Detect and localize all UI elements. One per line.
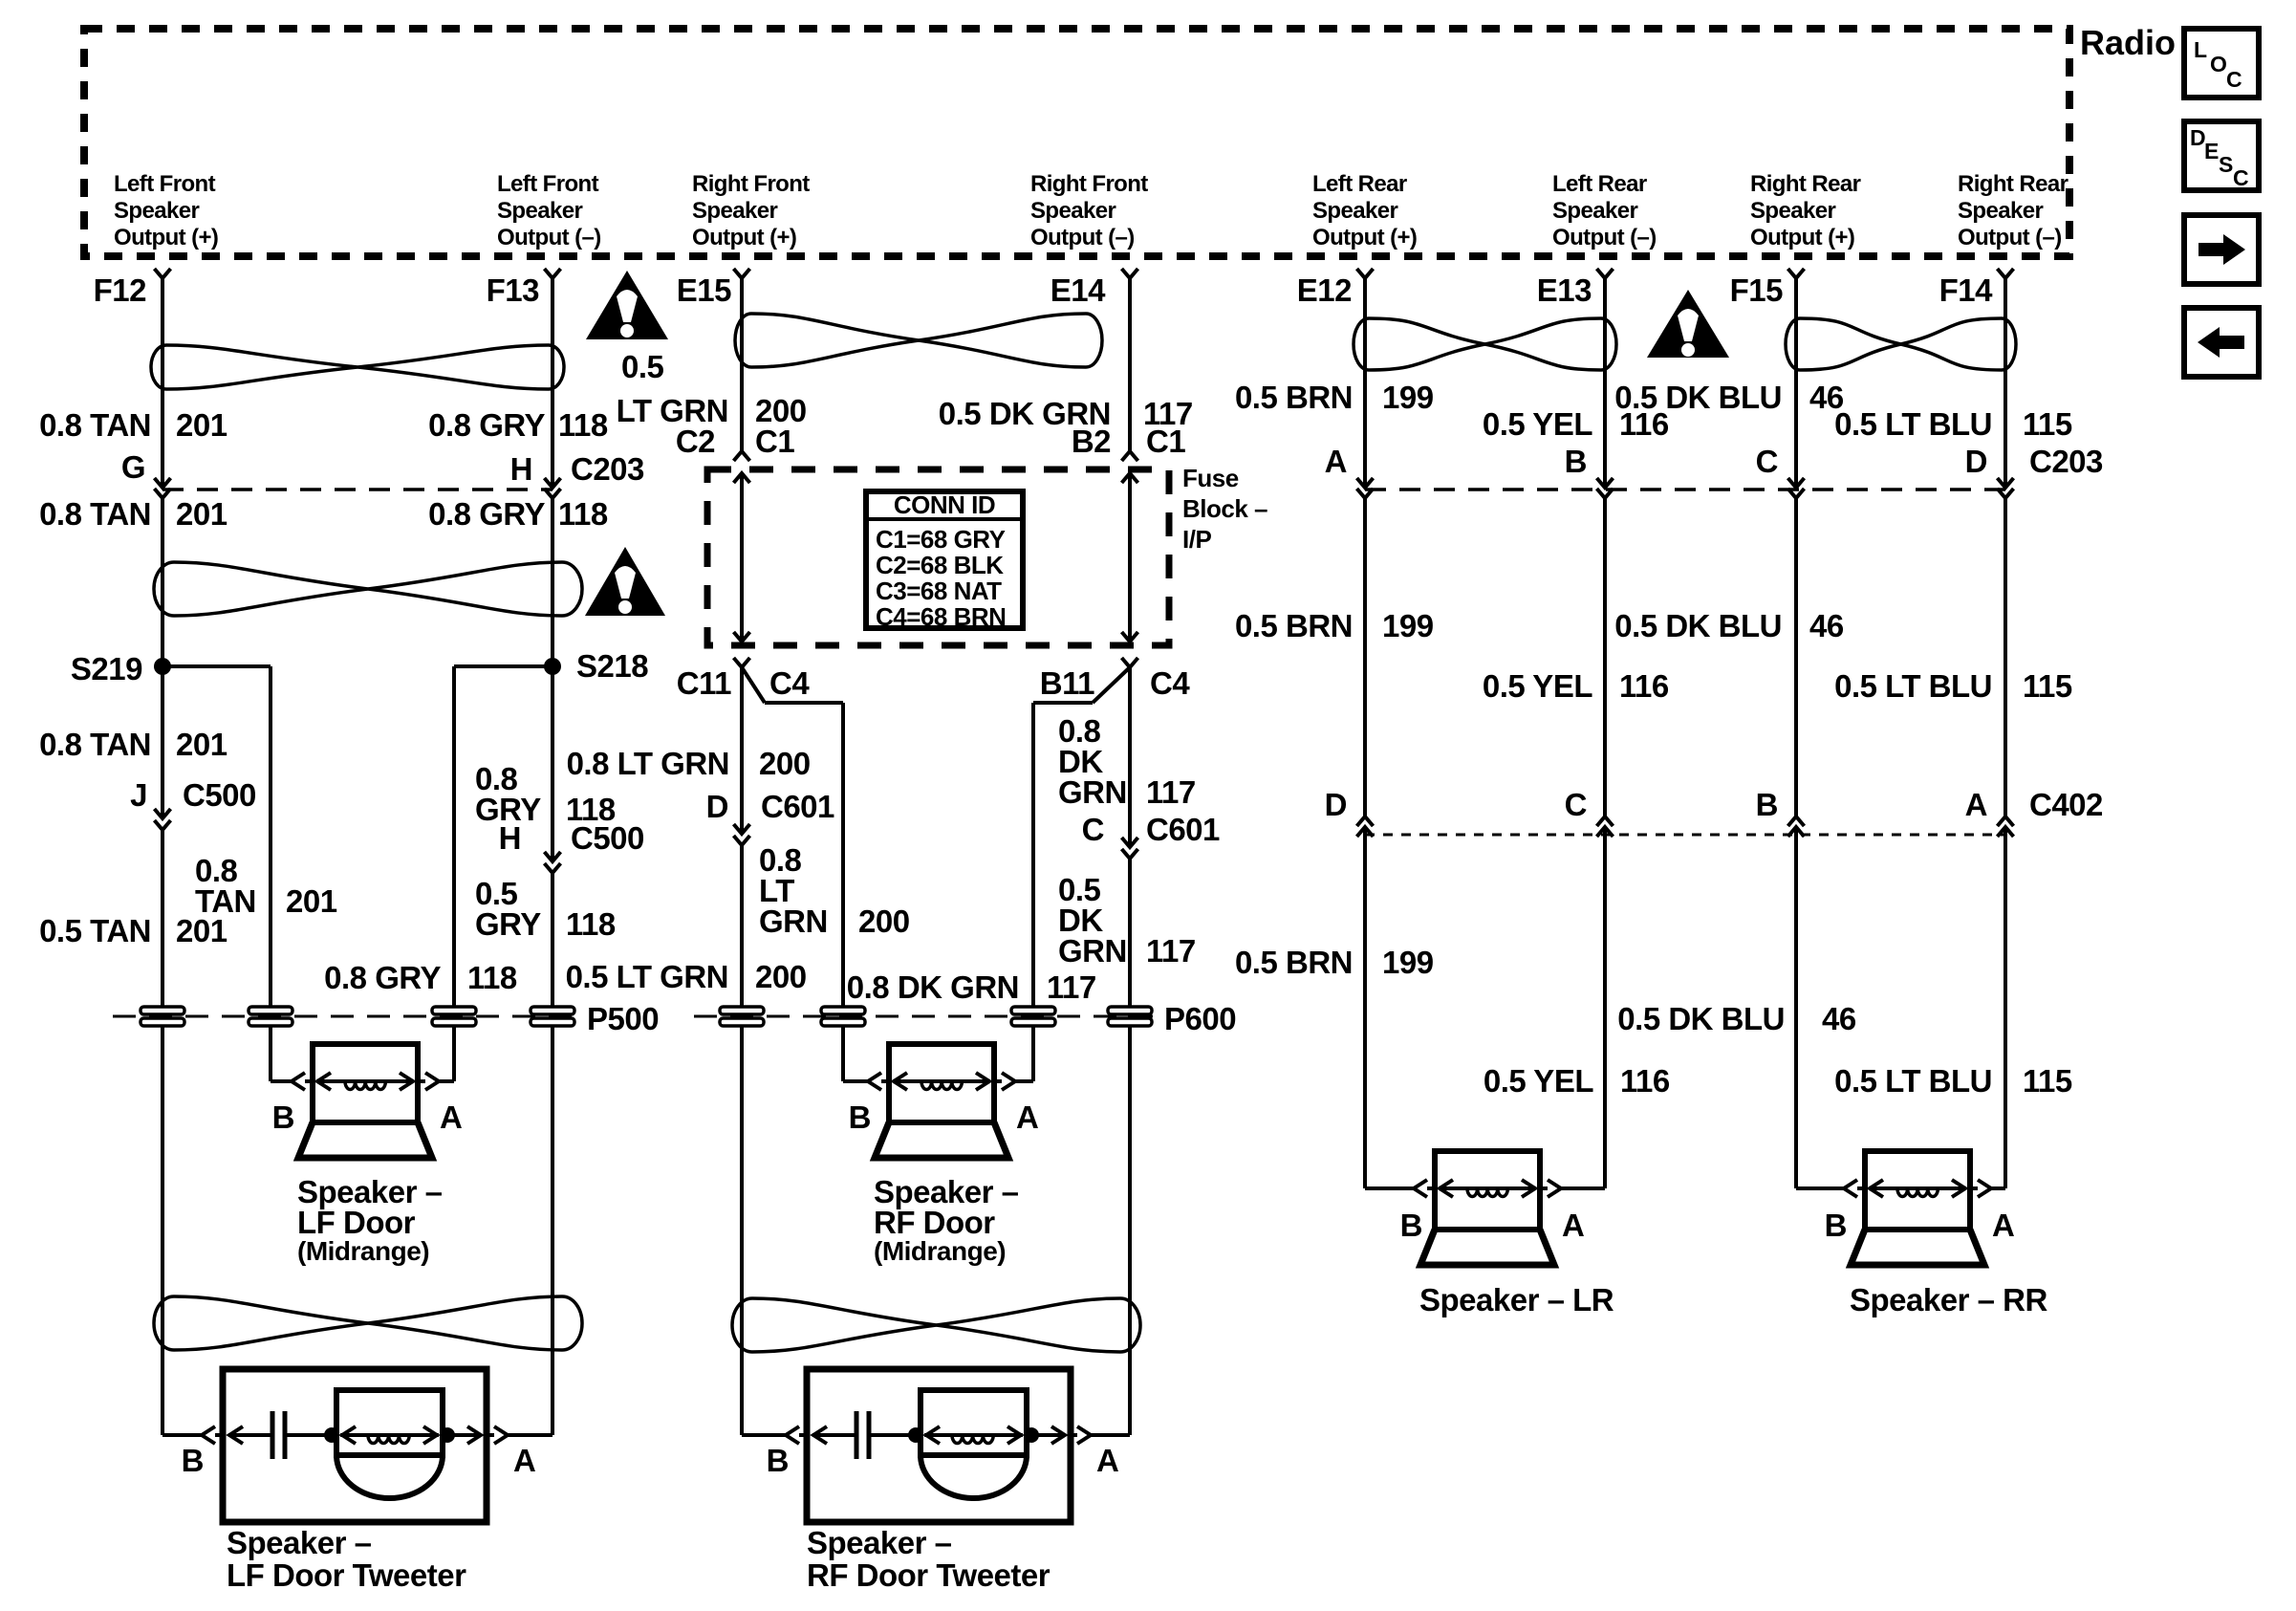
svg-text:C: C <box>1082 812 1104 847</box>
svg-text:0.8 LT GRN: 0.8 LT GRN <box>567 746 729 781</box>
twisted pair LR top <box>1354 318 1616 370</box>
wire branch to RF door speaker B <box>742 667 765 703</box>
svg-text:L: L <box>2194 37 2207 62</box>
svg-text:0.5 YEL: 0.5 YEL <box>1483 406 1592 442</box>
svg-text:Block –: Block – <box>1182 494 1267 523</box>
svg-text:0.5 LT BLU: 0.5 LT BLU <box>1834 668 1992 704</box>
node H at C203 <box>545 478 561 488</box>
svg-text:Right Front: Right Front <box>1030 171 1148 197</box>
svg-text:115: 115 <box>2023 406 2072 442</box>
radio (dashed box) <box>84 29 2069 256</box>
svg-text:Output (–): Output (–) <box>1030 225 1135 250</box>
svg-text:Speaker: Speaker <box>692 198 777 224</box>
svg-text:116: 116 <box>1619 668 1669 704</box>
tweeter internal circuit <box>812 1433 855 1437</box>
svg-text:0.5 LT BLU: 0.5 LT BLU <box>1834 1063 1992 1099</box>
junction dot <box>1024 1427 1039 1443</box>
svg-text:(Midrange): (Midrange) <box>297 1236 429 1266</box>
svg-text:G: G <box>121 449 145 485</box>
svg-text:C: C <box>2226 67 2242 92</box>
svg-text:0.8 TAN: 0.8 TAN <box>39 496 151 532</box>
node D at C402 <box>1357 816 1374 826</box>
connector C4 fuse block pin B11 <box>1122 658 1138 667</box>
svg-text:A: A <box>1325 444 1347 479</box>
node G at C203 <box>155 478 171 488</box>
node D at C203 rear <box>1998 478 2014 488</box>
svg-text:B: B <box>767 1443 789 1478</box>
speaker RR <box>1851 1151 1984 1265</box>
svg-text:Output (–): Output (–) <box>1552 225 1657 250</box>
svg-text:B: B <box>849 1099 871 1135</box>
svg-text:D: D <box>1965 444 1987 479</box>
svg-text:C4: C4 <box>1150 665 1190 701</box>
svg-text:Output (–): Output (–) <box>1958 225 2062 250</box>
svg-text:F15: F15 <box>1730 272 1784 308</box>
svg-text:O: O <box>2210 52 2227 76</box>
svg-text:C1=68 GRY: C1=68 GRY <box>876 525 1006 554</box>
radio pin F13 connector fork <box>545 269 561 278</box>
wire RF- dk grn (E14) <box>1128 278 1132 451</box>
capacitor <box>271 1411 275 1459</box>
svg-text:J: J <box>130 777 147 813</box>
radio pin E12 connector fork <box>1357 269 1374 278</box>
svg-text:S218: S218 <box>576 648 648 684</box>
wire RR- lt blu (F14) <box>2004 278 2007 488</box>
svg-text:A: A <box>440 1099 462 1135</box>
svg-text:Speaker: Speaker <box>497 198 582 224</box>
fuse block internal arrows <box>734 632 750 642</box>
svg-text:C601: C601 <box>1146 812 1220 847</box>
junction dot <box>440 1427 455 1443</box>
radio pin E15 connector fork <box>734 269 750 278</box>
svg-text:199: 199 <box>1382 380 1434 415</box>
radio pin F14 connector fork <box>1998 269 2014 278</box>
svg-text:200: 200 <box>759 746 811 781</box>
svg-text:C3=68 NAT: C3=68 NAT <box>876 577 1002 605</box>
connector C203 rear dashed line <box>1365 488 2015 491</box>
svg-text:Output (+): Output (+) <box>692 225 796 250</box>
svg-text:C11: C11 <box>677 665 731 701</box>
icon forward arrow box <box>2184 215 2259 284</box>
svg-text:GRN: GRN <box>759 903 828 939</box>
svg-text:46: 46 <box>1809 608 1844 643</box>
svg-text:A: A <box>1016 1099 1038 1135</box>
svg-text:Speaker –: Speaker – <box>227 1525 372 1560</box>
svg-text:Speaker: Speaker <box>1750 198 1835 224</box>
svg-text:Speaker – LR: Speaker – LR <box>1419 1282 1614 1317</box>
svg-text:CONN ID: CONN ID <box>894 490 995 519</box>
svg-text:Left Front: Left Front <box>114 171 216 197</box>
svg-text:115: 115 <box>2023 668 2072 704</box>
connector C601 pin D <box>734 824 750 834</box>
svg-text:Fuse: Fuse <box>1182 464 1239 492</box>
svg-text:118: 118 <box>467 960 517 995</box>
svg-text:0.8 GRY: 0.8 GRY <box>428 407 545 443</box>
svg-text:B: B <box>272 1099 294 1135</box>
svg-text:0.5 DK BLU: 0.5 DK BLU <box>1617 1001 1785 1036</box>
svg-text:P500: P500 <box>587 1001 659 1036</box>
svg-text:B: B <box>1756 787 1778 822</box>
svg-text:B2: B2 <box>1072 424 1111 459</box>
svg-text:A: A <box>1562 1208 1584 1243</box>
svg-text:115: 115 <box>2023 1063 2072 1099</box>
svg-text:118: 118 <box>566 906 616 942</box>
speaker RF Door midrange <box>875 1044 1008 1158</box>
tweeter dome <box>921 1455 1027 1498</box>
wire LF+ tan (F12) <box>161 278 164 488</box>
svg-text:B: B <box>1565 444 1587 479</box>
warning triangle 3 <box>1647 290 1729 358</box>
svg-text:0.5: 0.5 <box>621 349 664 384</box>
svg-text:B11: B11 <box>1040 665 1094 701</box>
svg-text:C601: C601 <box>761 789 834 824</box>
svg-text:Output (+): Output (+) <box>1312 225 1417 250</box>
wire branch to RF door speaker A <box>1093 667 1130 703</box>
svg-text:0.5 YEL: 0.5 YEL <box>1484 1063 1593 1099</box>
speaker RF Door tweeter box <box>807 1369 1071 1522</box>
svg-text:H: H <box>510 451 532 487</box>
svg-text:E13: E13 <box>1537 272 1592 308</box>
svg-text:118: 118 <box>558 496 608 532</box>
svg-text:0.8 GRY: 0.8 GRY <box>428 496 545 532</box>
svg-text:(Midrange): (Midrange) <box>874 1236 1006 1266</box>
svg-text:Speaker: Speaker <box>1312 198 1397 224</box>
svg-text:S: S <box>2219 152 2233 177</box>
svg-text:Output (+): Output (+) <box>1750 225 1854 250</box>
grommet pass-through P600 dashed line <box>694 1015 1153 1018</box>
wire branch S219 to LF door speaker B <box>162 664 271 668</box>
svg-text:E15: E15 <box>677 272 731 308</box>
wire RR+ dk blu (F15) <box>1794 278 1798 488</box>
connector C402 dashed line <box>1365 834 2005 837</box>
svg-text:46: 46 <box>1822 1001 1856 1036</box>
twisted pair RF top <box>735 314 1102 367</box>
svg-text:Output (+): Output (+) <box>114 225 218 250</box>
speaker LR <box>1420 1151 1554 1265</box>
svg-text:117: 117 <box>1146 774 1196 810</box>
svg-text:D: D <box>706 789 728 824</box>
node B at C402 <box>1788 816 1805 826</box>
svg-text:Speaker: Speaker <box>1958 198 2043 224</box>
svg-text:E14: E14 <box>1051 272 1106 308</box>
fuse block I/P (dashed box) <box>707 469 1169 645</box>
svg-text:117: 117 <box>1146 933 1196 969</box>
svg-text:Left Rear: Left Rear <box>1552 171 1647 197</box>
grommet P500 on gry wire <box>531 1007 574 1026</box>
svg-text:Right Rear: Right Rear <box>1750 171 1861 197</box>
svg-text:C500: C500 <box>571 820 644 856</box>
node A at C402 <box>1998 816 2014 826</box>
splice S219 <box>154 658 171 675</box>
wire branch S218 to LF door speaker A <box>454 664 552 668</box>
svg-text:0.5 LT GRN: 0.5 LT GRN <box>566 959 728 994</box>
svg-text:0.5 TAN: 0.5 TAN <box>39 913 151 948</box>
svg-text:0.5 DK BLU: 0.5 DK BLU <box>1614 380 1782 415</box>
twisted pair LF top <box>151 345 564 389</box>
node A at C203 rear <box>1357 478 1374 488</box>
svg-text:C2: C2 <box>676 424 715 459</box>
twisted pair RR top <box>1786 318 2016 370</box>
icon LOC box <box>2184 29 2259 98</box>
radio pin E13 connector fork <box>1597 269 1614 278</box>
svg-text:Left Rear: Left Rear <box>1312 171 1407 197</box>
svg-text:A: A <box>513 1443 535 1478</box>
connector C1 fuse block pin C2 <box>734 451 750 461</box>
tweeter dome <box>336 1455 443 1498</box>
grommet P500 on tan wire <box>141 1007 184 1026</box>
svg-text:199: 199 <box>1382 945 1434 980</box>
grommet P500 on branch A <box>432 1007 476 1026</box>
speaker LF Door midrange <box>298 1044 432 1158</box>
connector C203 front dashed line <box>162 488 552 491</box>
connector C500 pin H on gry wire <box>545 852 561 861</box>
svg-text:A: A <box>1096 1443 1118 1478</box>
radio pin F15 connector fork <box>1788 269 1805 278</box>
svg-text:LF Door Tweeter: LF Door Tweeter <box>227 1557 466 1593</box>
svg-text:201: 201 <box>176 407 227 443</box>
svg-text:C203: C203 <box>2029 444 2103 479</box>
svg-text:C500: C500 <box>183 777 256 813</box>
svg-text:B: B <box>182 1443 204 1478</box>
wire LR+ brn (E12) <box>1363 278 1367 488</box>
svg-text:GRY: GRY <box>475 906 541 942</box>
svg-text:C4: C4 <box>769 665 810 701</box>
svg-text:A: A <box>1965 787 1987 822</box>
twisted pair LF lower <box>154 1296 582 1350</box>
svg-text:118: 118 <box>558 407 608 443</box>
svg-text:0.5 BRN: 0.5 BRN <box>1235 608 1353 643</box>
capacitor <box>855 1411 859 1459</box>
junction dot <box>908 1427 923 1443</box>
svg-text:201: 201 <box>176 727 227 762</box>
svg-text:0.8 GRY: 0.8 GRY <box>324 960 441 995</box>
svg-text:C2=68 BLK: C2=68 BLK <box>876 551 1004 579</box>
svg-text:0.5 BRN: 0.5 BRN <box>1235 945 1353 980</box>
speaker LF Door tweeter box <box>223 1369 487 1522</box>
svg-text:I/P: I/P <box>1182 525 1211 554</box>
svg-text:F13: F13 <box>487 272 540 308</box>
svg-text:E: E <box>2204 139 2219 163</box>
svg-text:GRN: GRN <box>1058 933 1127 969</box>
svg-text:C1: C1 <box>1146 424 1185 459</box>
svg-text:Speaker: Speaker <box>1552 198 1637 224</box>
grommet P600 on branch B <box>821 1007 865 1026</box>
svg-text:200: 200 <box>858 903 910 939</box>
grommet P600 on lt grn wire <box>720 1007 764 1026</box>
svg-text:0.8 TAN: 0.8 TAN <box>39 407 151 443</box>
grommet P500 on branch B <box>249 1007 292 1026</box>
svg-text:0.8 TAN: 0.8 TAN <box>39 727 151 762</box>
svg-text:117: 117 <box>1047 969 1096 1005</box>
node C at C203 rear <box>1788 478 1805 488</box>
svg-text:D: D <box>1325 787 1347 822</box>
svg-text:S219: S219 <box>71 651 142 686</box>
svg-text:C: C <box>2233 165 2249 190</box>
svg-text:Right Rear: Right Rear <box>1958 171 2069 197</box>
grommet P600 on dk grn wire <box>1108 1007 1152 1026</box>
svg-text:C402: C402 <box>2029 787 2103 822</box>
svg-text:116: 116 <box>1620 1063 1670 1099</box>
svg-text:GRN: GRN <box>1058 774 1127 810</box>
svg-text:0.5 DK BLU: 0.5 DK BLU <box>1614 608 1782 643</box>
icon DESC box <box>2184 121 2259 190</box>
svg-text:200: 200 <box>755 959 807 994</box>
svg-text:F12: F12 <box>94 272 147 308</box>
svg-text:B: B <box>1400 1208 1422 1243</box>
twisted pair RF lower <box>732 1298 1140 1352</box>
svg-text:P600: P600 <box>1164 1001 1236 1036</box>
connector C4 fuse block pin C11 <box>734 658 750 667</box>
svg-text:Radio: Radio <box>2080 23 2176 62</box>
svg-text:199: 199 <box>1382 608 1434 643</box>
svg-text:Speaker: Speaker <box>1030 198 1116 224</box>
svg-text:0.5 LT BLU: 0.5 LT BLU <box>1834 406 1992 442</box>
svg-text:Right Front: Right Front <box>692 171 810 197</box>
svg-text:0.8 DK GRN: 0.8 DK GRN <box>847 969 1019 1005</box>
svg-text:C: C <box>1756 444 1778 479</box>
icon back arrow box <box>2184 308 2259 377</box>
radio pin F12 connector fork <box>155 269 171 278</box>
splice S218 <box>544 658 561 675</box>
grommet P600 on branch A <box>1011 1007 1055 1026</box>
twisted pair LF mid <box>154 562 582 616</box>
wire RF+ lt grn (E15) <box>740 278 744 451</box>
svg-text:LF Door: LF Door <box>297 1205 416 1240</box>
svg-text:RF Door Tweeter: RF Door Tweeter <box>807 1557 1051 1593</box>
svg-text:E12: E12 <box>1297 272 1352 308</box>
connector C1 fuse block pin B2 <box>1122 451 1138 461</box>
svg-text:201: 201 <box>176 913 227 948</box>
svg-text:201: 201 <box>176 496 227 532</box>
svg-text:201: 201 <box>286 883 337 919</box>
radio pin E14 connector fork <box>1122 269 1138 278</box>
wire LR- yel (E13) <box>1603 278 1607 488</box>
svg-text:B: B <box>1825 1208 1847 1243</box>
svg-text:C: C <box>1565 787 1587 822</box>
CONN ID table <box>866 491 1023 628</box>
node C at C402 <box>1597 816 1614 826</box>
svg-text:C4=68 BRN: C4=68 BRN <box>876 602 1006 631</box>
node B at C203 rear <box>1597 478 1614 488</box>
connector C601 pin C <box>1122 838 1138 847</box>
svg-text:0.5 BRN: 0.5 BRN <box>1235 380 1353 415</box>
svg-text:Speaker: Speaker <box>114 198 199 224</box>
svg-text:RF Door: RF Door <box>874 1205 995 1240</box>
svg-text:0.5 YEL: 0.5 YEL <box>1483 668 1592 704</box>
svg-text:C203: C203 <box>571 451 644 487</box>
tweeter internal circuit <box>228 1433 271 1437</box>
tweeter inner box (voice coil) <box>921 1390 1027 1455</box>
svg-text:H: H <box>499 820 521 856</box>
svg-text:Left Front: Left Front <box>497 171 599 197</box>
svg-text:Output (–): Output (–) <box>497 225 601 250</box>
svg-text:Speaker – RR: Speaker – RR <box>1850 1282 2047 1317</box>
junction dot <box>324 1427 339 1443</box>
tweeter inner box (voice coil) <box>336 1390 443 1455</box>
svg-text:Speaker –: Speaker – <box>807 1525 952 1560</box>
warning triangle 1 <box>586 271 668 339</box>
wire LF- gry (F13) <box>551 278 554 488</box>
warning triangle 2 <box>585 547 665 616</box>
connector C500 pin J on tan wire <box>155 809 171 818</box>
svg-text:A: A <box>1992 1208 2014 1243</box>
svg-text:F14: F14 <box>1939 272 1994 308</box>
svg-text:C1: C1 <box>755 424 794 459</box>
grommet pass-through P500 dashed line <box>113 1015 574 1018</box>
